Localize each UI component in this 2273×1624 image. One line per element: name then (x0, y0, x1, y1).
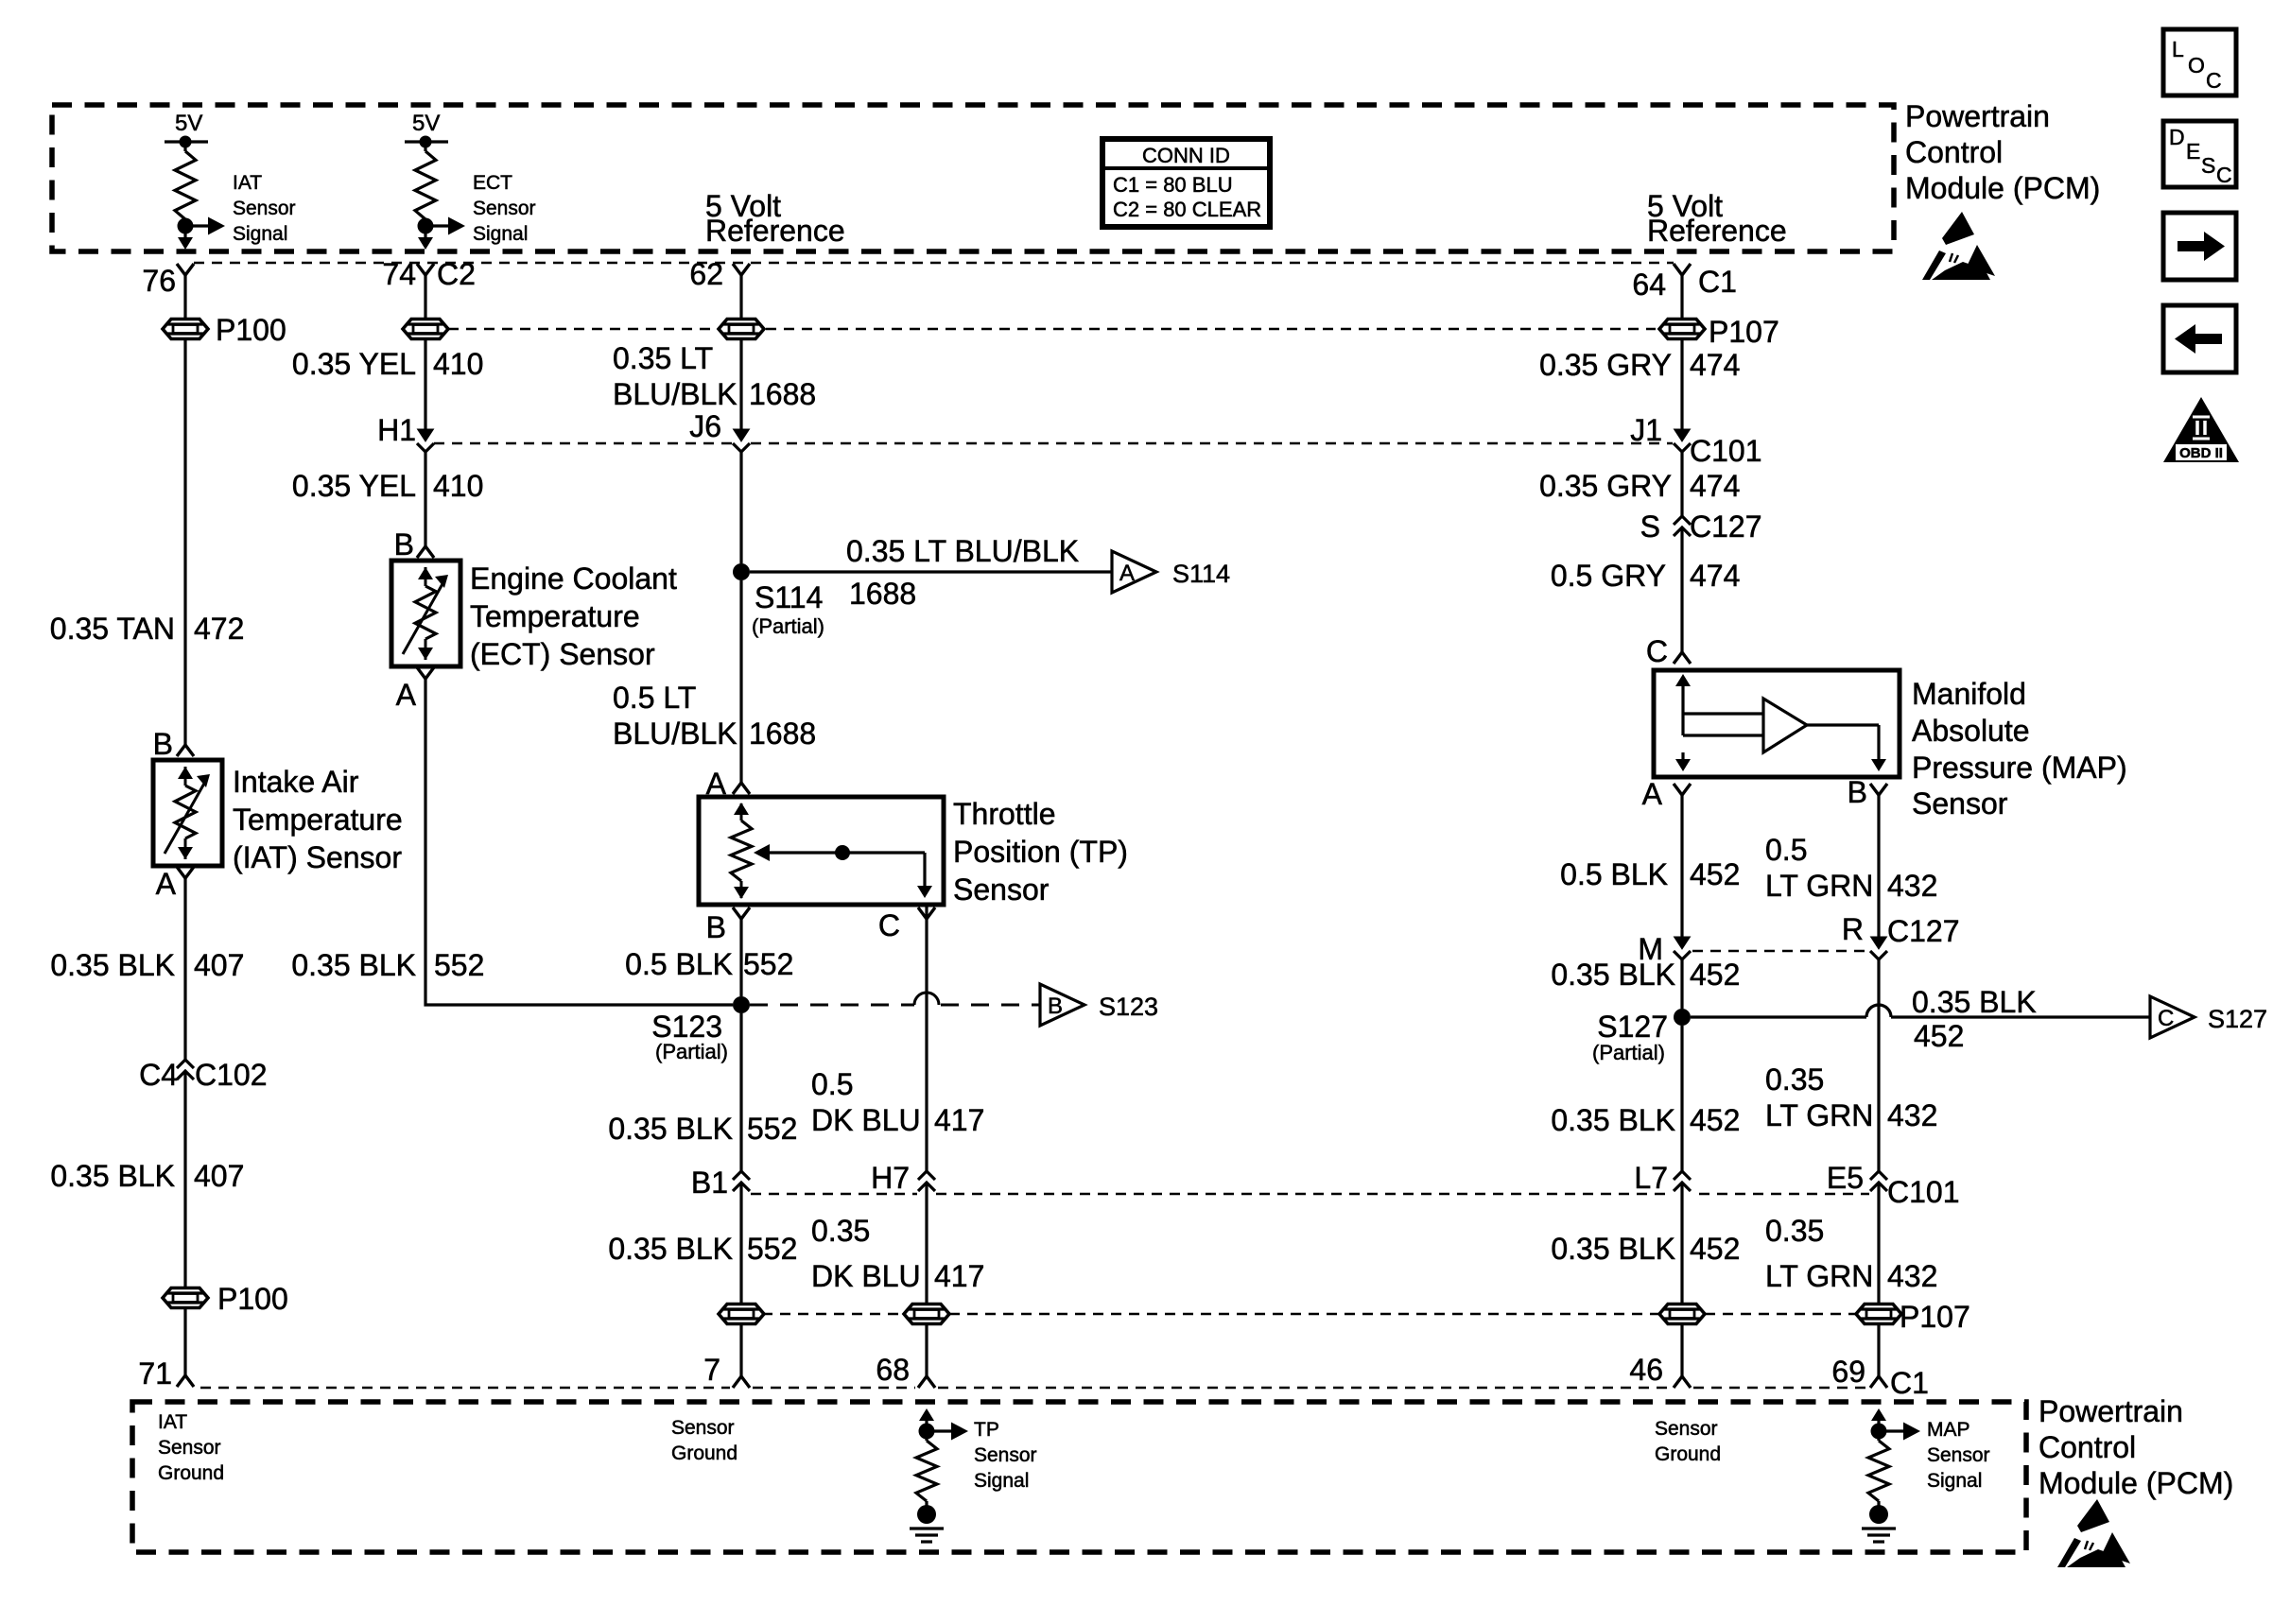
svg-text:452: 452 (1690, 1103, 1740, 1137)
connector H7 chevrons (918, 1171, 935, 1180)
svg-text:S123: S123 (651, 1010, 722, 1044)
ECT sensor box (391, 561, 460, 666)
connector dashed line pins 76-64 (194, 262, 1674, 265)
svg-text:0.35 BLK: 0.35 BLK (50, 1159, 175, 1193)
svg-text:BLU/BLK: BLU/BLK (613, 717, 737, 751)
svg-text:C: C (878, 908, 900, 942)
label 0.35 BLK 552 mid (608, 1112, 797, 1146)
wire P107 to pin 69 (1877, 1324, 1880, 1376)
connector E5 chevrons (1870, 1171, 1887, 1180)
svg-text:C2 = 80 CLEAR: C2 = 80 CLEAR (1113, 198, 1261, 221)
svg-text:(Partial): (Partial) (752, 614, 824, 638)
svg-text:407: 407 (194, 948, 244, 982)
svg-text:0.35 BLK: 0.35 BLK (50, 948, 175, 982)
wire 5Vref J6 to S114 (739, 452, 742, 563)
svg-text:J1: J1 (1630, 413, 1662, 447)
label Throttle Position (TP) Sensor (953, 797, 1128, 907)
svg-text:DK BLU: DK BLU (811, 1103, 921, 1137)
svg-text:452: 452 (1914, 1019, 1964, 1053)
svg-text:B: B (153, 727, 173, 761)
svg-text:CONN ID: CONN ID (1142, 144, 1230, 167)
junction dot 5V IAT (180, 136, 192, 148)
wire L7 down to P107 bottom (1680, 1183, 1683, 1304)
label Sensor Ground pin 46 (1655, 1418, 1721, 1465)
svg-text:0.5 BLK: 0.5 BLK (625, 947, 733, 981)
CONN ID table (1102, 139, 1270, 227)
junction dot S127 (1674, 1009, 1691, 1026)
svg-text:Sensor: Sensor (953, 872, 1050, 907)
wire S114 to TP A (739, 580, 742, 783)
svg-text:A: A (396, 678, 417, 712)
label 0.35 GRY 474 upper (1539, 348, 1740, 382)
svg-text:C102: C102 (195, 1058, 268, 1092)
label 0.35 BLK 452 branch (1912, 985, 2037, 1053)
svg-text:Position (TP): Position (TP) (953, 835, 1128, 869)
svg-text:474: 474 (1690, 348, 1740, 382)
label 0.35 LT BLU/BLK 1688 branch (846, 534, 1079, 611)
label 0.35 YEL 410 lower (292, 469, 483, 503)
svg-text:A: A (1119, 561, 1135, 586)
wire J1 to C127 S (1680, 452, 1683, 516)
svg-text:C127: C127 (1887, 914, 1960, 948)
wire grommet to pin 7 (739, 1324, 742, 1376)
junction dot 5V ECT (420, 136, 432, 148)
MAP amp output to B (1807, 725, 1879, 768)
svg-text:Powertrain: Powertrain (1905, 99, 2050, 133)
svg-text:TP: TP (974, 1419, 999, 1441)
label S114 (Partial) (752, 580, 824, 638)
svg-text:E: E (2186, 139, 2200, 164)
label 0.5 DK BLU 417 (811, 1067, 984, 1137)
PCM top label Powertrain Control Module (PCM) (1905, 99, 2100, 205)
svg-text:0.5 BLK: 0.5 BLK (1560, 857, 1668, 891)
svg-text:417: 417 (934, 1259, 984, 1293)
wire S127 down to L7 (1680, 1026, 1683, 1171)
svg-text:0.35 BLK: 0.35 BLK (291, 948, 416, 982)
label 5 Volt Reference left (705, 189, 845, 248)
connector H1 arrow (418, 429, 434, 441)
pin 69 fork (1870, 1376, 1887, 1388)
ground MAP (1862, 1529, 1896, 1542)
off-page ref B S123 (1040, 984, 1084, 1026)
svg-text:P100: P100 (217, 1282, 288, 1316)
TP wiper arrow (754, 844, 925, 887)
svg-text:0.35 YEL: 0.35 YEL (292, 469, 416, 503)
pin A fork IAT (177, 867, 194, 878)
svg-text:C4: C4 (139, 1058, 178, 1092)
svg-text:Sensor: Sensor (158, 1437, 221, 1459)
svg-text:432: 432 (1887, 1259, 1937, 1293)
label 0.35 BLK 552 (ECT leg) (291, 948, 484, 982)
pin 68 fork (918, 1376, 935, 1388)
svg-text:E5: E5 (1827, 1161, 1864, 1195)
svg-text:Powertrain: Powertrain (2039, 1394, 2183, 1428)
label 0.5 BLK 552 (625, 947, 793, 981)
svg-text:Ground: Ground (671, 1443, 737, 1464)
pin B fork ECT (417, 546, 434, 558)
svg-text:(ECT) Sensor: (ECT) Sensor (470, 637, 655, 671)
svg-text:C: C (2158, 1006, 2174, 1031)
svg-text:Sensor: Sensor (671, 1417, 735, 1439)
connector C4 C102 chevrons (177, 1060, 194, 1068)
5V supply bar (ECT) (405, 140, 448, 143)
wire ECT 74 to C2 grommet (424, 275, 426, 319)
wire B1 down to P grommet (739, 1183, 742, 1304)
wire MAP B to R (1877, 795, 1880, 941)
connector grommet wire 46 (1659, 1304, 1705, 1324)
svg-text:Ground: Ground (158, 1462, 224, 1484)
svg-text:5V: 5V (175, 111, 202, 136)
svg-text:P107: P107 (1900, 1300, 1970, 1334)
wire IAT A to C102 (183, 878, 186, 1060)
svg-text:S114: S114 (1172, 560, 1230, 588)
svg-text:H1: H1 (377, 413, 416, 447)
svg-text:C101: C101 (1690, 434, 1762, 468)
connector R arrow (1871, 937, 1887, 949)
svg-text:H7: H7 (871, 1161, 910, 1195)
connector P100 bottom (163, 1288, 208, 1308)
wire IAT P100 to pin 71 (183, 1308, 186, 1375)
MAP signal internal arrow up (1877, 1412, 1880, 1431)
svg-text:S127: S127 (2208, 1005, 2267, 1033)
pin 64 fork (1674, 264, 1691, 275)
resistor IAT pullup (inside PCM) (183, 142, 186, 151)
forward arrow icon box (2163, 213, 2236, 280)
svg-text:410: 410 (433, 347, 483, 381)
pin B fork IAT (177, 745, 194, 756)
wire S114 branch to A ref (750, 570, 1112, 573)
wire ECT C2 to H1 (424, 339, 426, 430)
wire IAT C102 to P100 bottom (183, 1071, 186, 1287)
MAP sensor box (1654, 670, 1900, 777)
junction dot ECT signal (418, 218, 434, 234)
wire ECT signal down to pin 74 with arrowhead (424, 233, 426, 238)
svg-text:0.35 LT: 0.35 LT (613, 341, 713, 375)
label 0.5 LT BLU/BLK 1688 (613, 681, 816, 751)
svg-text:A: A (156, 867, 177, 901)
pin 76 fork (177, 264, 194, 275)
connector J6 arrow (734, 429, 750, 441)
svg-text:432: 432 (1887, 1098, 1937, 1132)
svg-text:B1: B1 (691, 1166, 728, 1200)
svg-text:74: 74 (382, 257, 416, 291)
label MAP Sensor Signal (1927, 1419, 1990, 1492)
wire 5Vref right 64 to P107 (1680, 275, 1683, 319)
wire IAT P100 to sensor (183, 339, 186, 745)
IAT sensor box (153, 760, 222, 866)
TP sensor box (699, 797, 944, 905)
PCM top dashed box (52, 105, 1894, 251)
svg-text:69: 69 (1831, 1355, 1865, 1389)
pin B fork MAP (1870, 784, 1887, 795)
dot MAP ground (1869, 1505, 1888, 1524)
svg-text:C: C (1646, 634, 1668, 668)
svg-text:0.35 GRY: 0.35 GRY (1539, 469, 1672, 503)
svg-text:Manifold: Manifold (1912, 677, 2026, 711)
svg-text:0.35 BLK: 0.35 BLK (1551, 1103, 1675, 1137)
svg-text:Sensor: Sensor (1655, 1418, 1718, 1440)
dot TP ground (917, 1505, 936, 1524)
svg-text:474: 474 (1690, 559, 1740, 593)
wire ECT A down and right to S123 (425, 679, 733, 1005)
svg-text:Engine Coolant: Engine Coolant (470, 561, 677, 596)
svg-text:Signal: Signal (233, 223, 287, 245)
wire grommet to pin 68 (925, 1324, 928, 1376)
svg-text:DK BLU: DK BLU (811, 1259, 921, 1293)
svg-text:Sensor: Sensor (233, 198, 296, 219)
label 0.35 GRY 474 second (1539, 469, 1740, 503)
svg-text:417: 417 (934, 1103, 984, 1137)
svg-text:452: 452 (1690, 1232, 1740, 1266)
svg-text:0.5 LT: 0.5 LT (613, 681, 696, 715)
connector grommet wire 68 (904, 1304, 949, 1324)
label 0.35 DK BLU 417 lower (811, 1214, 984, 1293)
svg-text:IAT: IAT (233, 172, 262, 194)
svg-text:0.35: 0.35 (811, 1214, 870, 1248)
wire grommet to pin 46 (1680, 1324, 1683, 1376)
label Engine Coolant Temperature (ECT) Sensor (470, 561, 677, 671)
label 0.35 BLK 452 mid (1551, 1103, 1740, 1137)
wire R down to E5 (1877, 959, 1880, 1171)
svg-text:ECT: ECT (473, 172, 512, 194)
svg-text:B: B (1048, 993, 1063, 1019)
label 0.35 YEL 410 upper (292, 347, 483, 381)
wire H7 down to P grommet (925, 1183, 928, 1304)
svg-text:Module (PCM): Module (PCM) (1905, 171, 2100, 205)
svg-text:Sensor: Sensor (1927, 1444, 1990, 1466)
label Intake Air Temperature (IAT) Sensor (233, 765, 403, 874)
svg-text:Sensor: Sensor (974, 1444, 1037, 1466)
svg-text:S: S (1640, 510, 1660, 544)
svg-text:J6: J6 (689, 409, 721, 443)
svg-text:0.35 BLK: 0.35 BLK (608, 1232, 733, 1266)
C101 dashed line H1-J1 row (434, 442, 732, 445)
svg-text:C1 = 80 BLU: C1 = 80 BLU (1113, 173, 1233, 197)
label 5 Volt Reference right (1647, 189, 1787, 248)
svg-text:S: S (2201, 153, 2215, 178)
svg-text:552: 552 (743, 947, 793, 981)
svg-text:Intake Air: Intake Air (233, 765, 359, 799)
svg-text:C127: C127 (1690, 510, 1762, 544)
MAP internal up arrow (1675, 674, 1691, 686)
label 0.5 BLK 452 (1560, 857, 1740, 891)
svg-text:C101: C101 (1887, 1175, 1960, 1209)
svg-text:R: R (1842, 912, 1864, 946)
svg-text:452: 452 (1690, 958, 1740, 992)
5V supply bar (IAT) (165, 140, 208, 143)
svg-text:C2: C2 (437, 257, 476, 291)
connector grommet ECT wire (403, 320, 448, 339)
label 0.35 TAN 472 (50, 612, 245, 646)
label 0.35 BLK 452 lower (1551, 1232, 1740, 1266)
wire IAT signal down to pin 76 with arrowhead (183, 233, 186, 238)
DESC icon box (2163, 121, 2236, 187)
label 0.35 BLK 552 lower (608, 1232, 797, 1266)
svg-text:S123: S123 (1099, 993, 1158, 1021)
svg-text:S127: S127 (1597, 1010, 1668, 1044)
junction dot TP signal (919, 1424, 935, 1440)
connector grommet 5Vref wire (719, 320, 764, 339)
svg-text:A: A (1642, 777, 1663, 811)
svg-text:552: 552 (747, 1112, 797, 1146)
wire M to S127 (1680, 959, 1683, 1009)
pin 74 fork (417, 264, 434, 275)
svg-text:Control: Control (2039, 1430, 2136, 1464)
svg-text:0.35: 0.35 (1765, 1214, 1824, 1248)
svg-text:Reference: Reference (705, 214, 845, 248)
back arrow icon box (2163, 305, 2236, 372)
svg-text:62: 62 (689, 257, 723, 291)
svg-text:O: O (2188, 53, 2205, 78)
MAP internal A down arrow (1681, 752, 1684, 768)
svg-text:C1: C1 (1890, 1366, 1929, 1400)
svg-text:0.35 BLK: 0.35 BLK (1551, 1232, 1675, 1266)
OBD II icon triangle (2163, 397, 2239, 462)
connector P107 top (1659, 320, 1705, 339)
svg-text:L: L (2172, 37, 2184, 61)
connector L7 chevrons (1674, 1171, 1691, 1180)
wire MAP A to M (1680, 795, 1683, 941)
svg-text:Sensor: Sensor (1912, 786, 2008, 821)
pin A fork ECT (417, 667, 434, 679)
wire TP B to S123 (739, 919, 742, 996)
junction dot S114 (733, 563, 750, 580)
wire E5 down to P107 bottom (1877, 1183, 1880, 1304)
svg-text:1688: 1688 (749, 717, 816, 751)
connector J1 arrow (1674, 429, 1691, 441)
svg-text:0.35 BLK: 0.35 BLK (1912, 985, 2037, 1019)
svg-text:(Partial): (Partial) (1592, 1041, 1665, 1064)
svg-text:0.5: 0.5 (1765, 833, 1807, 867)
svg-text:410: 410 (433, 469, 483, 503)
svg-text:LT GRN: LT GRN (1765, 869, 1873, 903)
junction dot S123 (733, 996, 750, 1013)
inline connector dashed bottom row (762, 1313, 904, 1316)
svg-text:432: 432 (1887, 869, 1937, 903)
connector B1 chevrons (733, 1171, 750, 1180)
svg-text:LT GRN: LT GRN (1765, 1259, 1873, 1293)
svg-text:452: 452 (1690, 857, 1740, 891)
label 0.35 BLK 407 lower (50, 1159, 244, 1193)
svg-text:S114: S114 (755, 580, 823, 614)
svg-text:B: B (706, 910, 726, 944)
resistor MAP pulldown (1877, 1431, 1880, 1441)
label 0.5 LT GRN 432 (1765, 833, 1937, 903)
label Sensor Ground pin 7 (671, 1417, 737, 1464)
ESD warning symbol top (1922, 212, 1995, 280)
svg-text:Module (PCM): Module (PCM) (2039, 1466, 2233, 1500)
svg-text:L7: L7 (1634, 1161, 1668, 1195)
svg-text:Control: Control (1905, 135, 2003, 169)
wire S127 branch to C ref with hop (1691, 1005, 2150, 1017)
off-page ref A S114 (1112, 551, 1156, 593)
label Manifold Absolute Pressure (MAP) Sensor (1912, 677, 2127, 821)
label 0.35 LT BLU/BLK 1688 upper (613, 341, 816, 411)
ESD warning symbol bottom (2057, 1499, 2130, 1567)
svg-text:407: 407 (194, 1159, 244, 1193)
svg-text:71: 71 (138, 1356, 172, 1391)
label 0.35 BLK 407 upper (50, 948, 244, 982)
svg-text:C: C (2206, 68, 2222, 93)
arrow MAP signal right (1879, 1429, 1905, 1432)
svg-text:Signal: Signal (1927, 1470, 1982, 1492)
pin 46 fork (1674, 1376, 1691, 1388)
dashed branch S123 to B ref with hop (750, 1004, 914, 1007)
junction dot IAT signal (178, 218, 194, 234)
svg-text:552: 552 (747, 1232, 797, 1266)
connector P100 top (163, 320, 208, 339)
svg-text:64: 64 (1632, 268, 1666, 302)
svg-text:0.5 GRY: 0.5 GRY (1551, 559, 1666, 593)
connector M arrow (1674, 937, 1691, 949)
LOC icon box (2163, 29, 2236, 95)
svg-text:0.35 GRY: 0.35 GRY (1539, 348, 1672, 382)
svg-text:P107: P107 (1709, 315, 1779, 349)
label 0.35 LT GRN 432 lower (1765, 1214, 1937, 1293)
svg-text:P100: P100 (216, 313, 286, 347)
svg-text:B: B (394, 527, 414, 561)
connector P107 bottom (1856, 1304, 1901, 1324)
connector grommet wire 7 (719, 1304, 764, 1324)
arrow TP signal right (927, 1429, 953, 1432)
svg-text:IAT: IAT (158, 1411, 187, 1433)
svg-text:Sensor: Sensor (473, 198, 536, 219)
svg-text:0.5: 0.5 (811, 1067, 853, 1101)
wire TP B S123 down to B1 (739, 1013, 742, 1171)
arrow ECT sensor signal (425, 224, 450, 227)
connector S C127 chevrons (1674, 516, 1691, 525)
label 0.35 BLK 452 above S127 (1551, 958, 1740, 992)
svg-text:68: 68 (876, 1353, 910, 1387)
svg-text:0.35: 0.35 (1765, 1063, 1824, 1097)
TP signal internal arrow up (925, 1412, 928, 1431)
svg-text:Throttle: Throttle (953, 797, 1055, 831)
svg-text:0.35 YEL: 0.35 YEL (292, 347, 416, 381)
svg-text:Signal: Signal (473, 223, 528, 245)
pin 71 fork (177, 1375, 194, 1387)
svg-text:OBD II: OBD II (2179, 445, 2223, 461)
svg-text:0.35 TAN: 0.35 TAN (50, 612, 175, 646)
svg-text:0.35 BLK: 0.35 BLK (608, 1112, 733, 1146)
svg-text:0.35 BLK: 0.35 BLK (1551, 958, 1675, 992)
PCM bottom label Powertrain Control Module (PCM) (2039, 1394, 2233, 1500)
svg-text:1688: 1688 (749, 377, 816, 411)
PCM bottom dashed box (132, 1402, 2026, 1552)
svg-text:Signal: Signal (974, 1470, 1029, 1492)
svg-text:MAP: MAP (1927, 1419, 1970, 1441)
connector dashed line pins 71-69 (200, 1387, 730, 1390)
svg-text:472: 472 (194, 612, 244, 646)
off-page ref C S127 (2150, 996, 2195, 1038)
label ECT Sensor Signal (473, 172, 536, 245)
MAP internal B down arrow (1871, 759, 1886, 771)
inline connector dashed line C2-C1 row (448, 328, 717, 331)
svg-text:Pressure (MAP): Pressure (MAP) (1912, 751, 2127, 785)
svg-text:76: 76 (142, 264, 176, 298)
svg-text:D: D (2169, 125, 2185, 149)
label 0.35 LT GRN 432 mid (1765, 1063, 1937, 1132)
svg-text:LT GRN: LT GRN (1765, 1098, 1873, 1132)
ground TP (910, 1529, 944, 1542)
arrow IAT sensor signal (185, 224, 210, 227)
svg-text:B: B (1848, 775, 1867, 809)
svg-text:Temperature: Temperature (470, 599, 640, 633)
svg-text:Reference: Reference (1647, 214, 1787, 248)
wire 5Vref grommet to J6 (739, 339, 742, 430)
pin C fork TP (918, 907, 935, 919)
junction dot MAP signal (1871, 1424, 1887, 1440)
junction dot TP wiper (835, 845, 850, 860)
